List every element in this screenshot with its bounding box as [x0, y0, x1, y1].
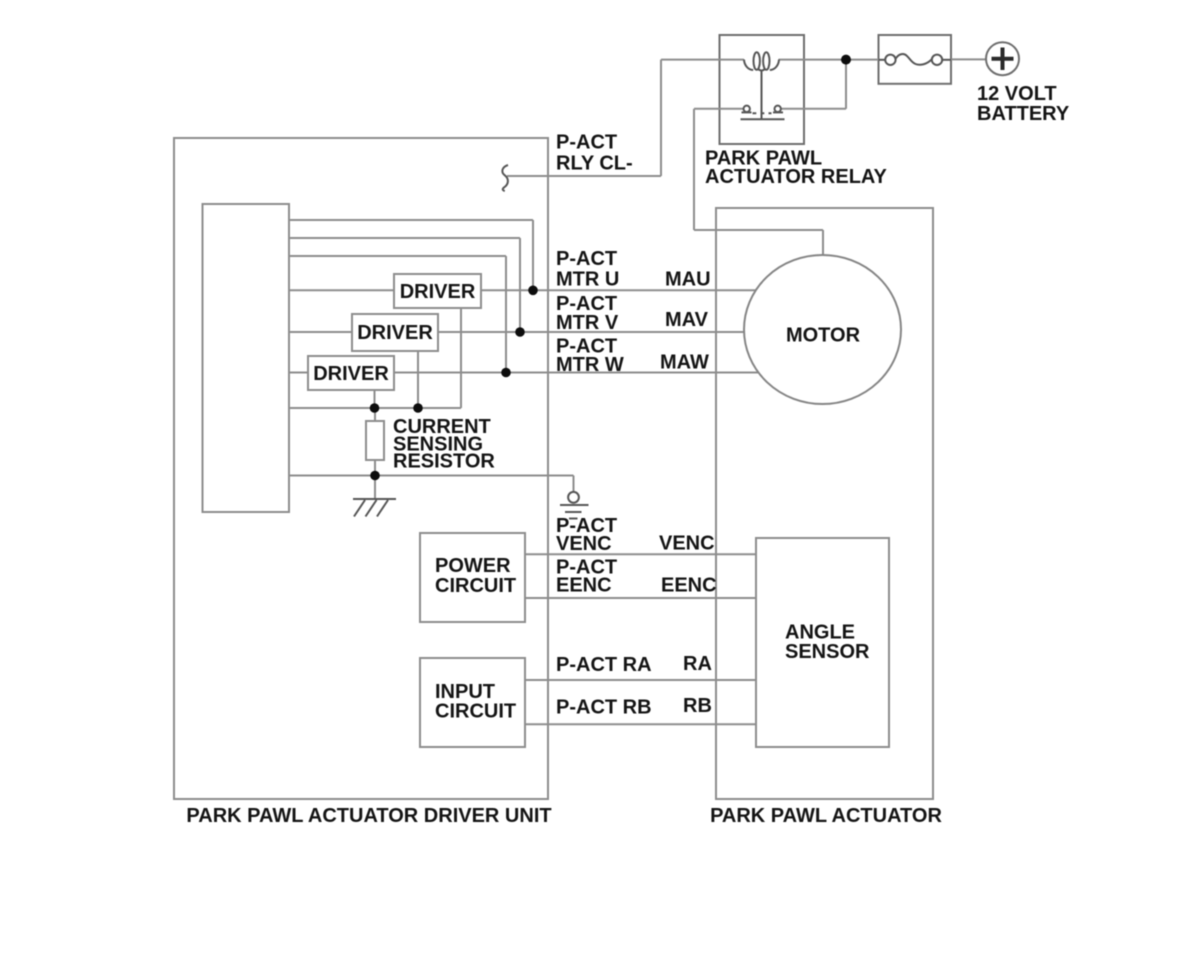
- svg-text:ACTUATOR RELAY: ACTUATOR RELAY: [705, 166, 888, 188]
- svg-text:RLY CL-: RLY CL-: [556, 153, 633, 175]
- svg-text:DRIVER: DRIVER: [313, 363, 389, 385]
- svg-text:MAU: MAU: [665, 268, 711, 290]
- svg-text:MOTOR: MOTOR: [786, 325, 861, 347]
- svg-text:EENC: EENC: [661, 574, 717, 596]
- svg-text:PARK PAWL ACTUATOR: PARK PAWL ACTUATOR: [710, 805, 942, 827]
- svg-text:SENSOR: SENSOR: [785, 641, 870, 663]
- svg-text:POWER: POWER: [435, 555, 511, 577]
- svg-text:RB: RB: [683, 695, 712, 717]
- svg-text:P-ACT RB: P-ACT RB: [556, 697, 652, 719]
- svg-text:EENC: EENC: [556, 575, 612, 597]
- svg-text:P-ACT: P-ACT: [556, 132, 617, 154]
- svg-text:12 VOLT: 12 VOLT: [977, 83, 1057, 105]
- svg-text:PARK PAWL ACTUATOR DRIVER UNIT: PARK PAWL ACTUATOR DRIVER UNIT: [186, 805, 551, 827]
- svg-text:DRIVER: DRIVER: [357, 322, 433, 344]
- svg-text:VENC: VENC: [659, 533, 715, 555]
- svg-text:VENC: VENC: [556, 533, 612, 555]
- svg-text:INPUT: INPUT: [435, 681, 495, 703]
- svg-text:BATTERY: BATTERY: [977, 103, 1070, 125]
- svg-text:RESISTOR: RESISTOR: [393, 451, 495, 473]
- svg-text:CIRCUIT: CIRCUIT: [435, 701, 516, 723]
- svg-text:DRIVER: DRIVER: [400, 281, 476, 303]
- svg-text:MAV: MAV: [665, 309, 709, 331]
- svg-text:P-ACT: P-ACT: [556, 248, 617, 270]
- svg-text:CIRCUIT: CIRCUIT: [435, 575, 516, 597]
- svg-text:MAW: MAW: [660, 351, 709, 373]
- svg-text:MTR W: MTR W: [556, 354, 624, 376]
- svg-text:MTR U: MTR U: [556, 268, 619, 290]
- svg-text:P-ACT RA: P-ACT RA: [556, 654, 652, 676]
- svg-text:MTR V: MTR V: [556, 312, 619, 334]
- svg-text:RA: RA: [683, 653, 712, 675]
